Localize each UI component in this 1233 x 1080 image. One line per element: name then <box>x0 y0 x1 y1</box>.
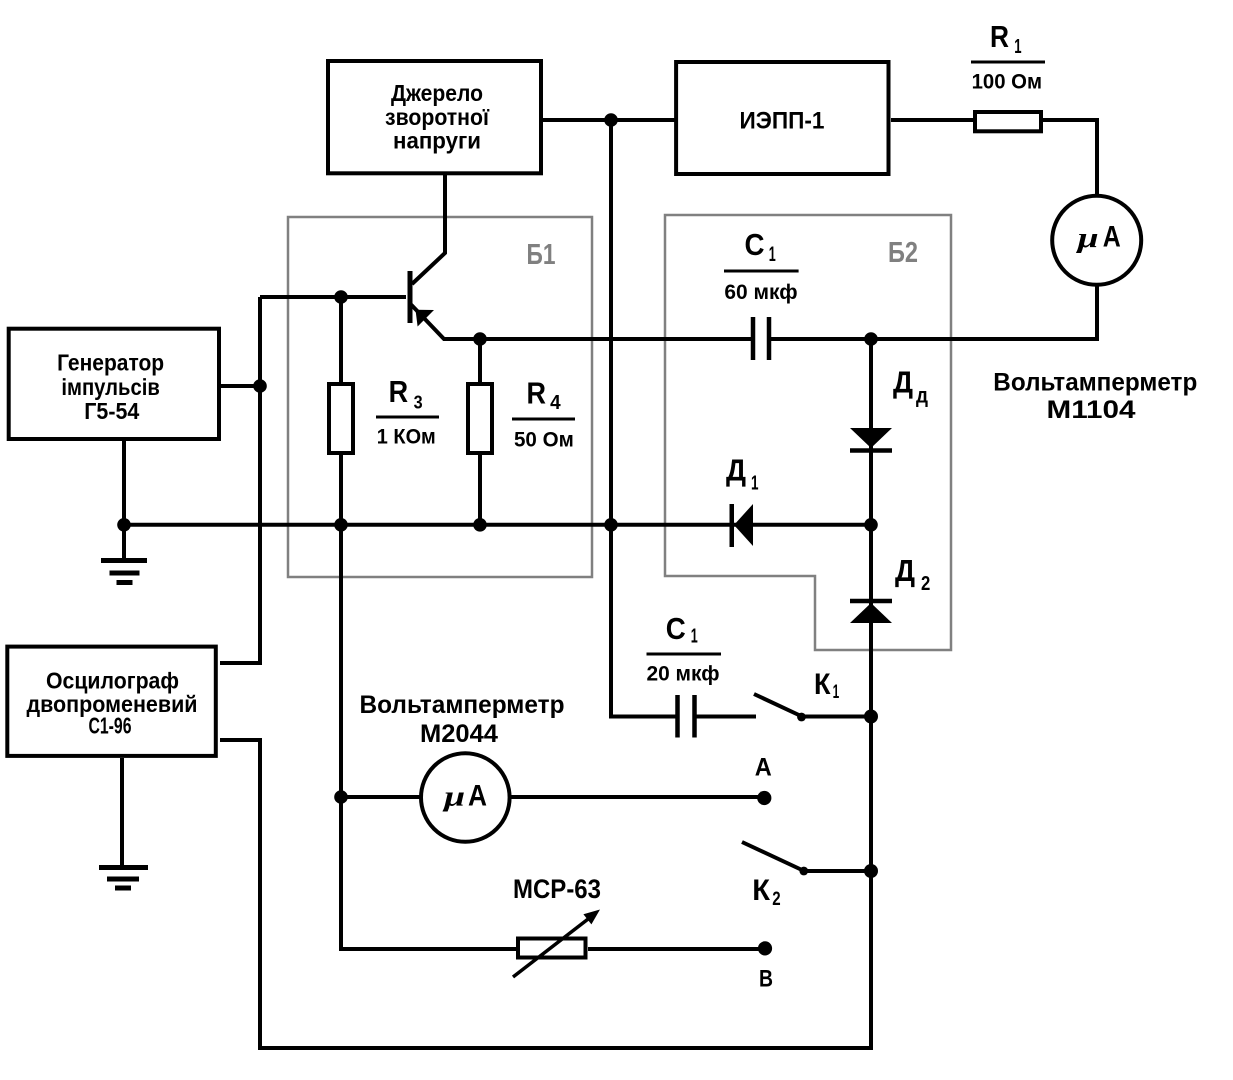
svg-text:зворотної: зворотної <box>385 104 489 130</box>
svg-text:Вольтамперметр: Вольтамперметр <box>993 369 1197 397</box>
svg-text:Осцилограф: Осцилограф <box>46 668 179 694</box>
svg-text:60 мкф: 60 мкф <box>724 280 797 304</box>
svg-text:20 мкф: 20 мкф <box>647 662 720 686</box>
svg-text:Г5-54: Г5-54 <box>84 398 139 424</box>
svg-text:Вольтамперметр: Вольтамперметр <box>360 691 565 719</box>
svg-text:д: д <box>916 384 928 407</box>
svg-text:Джерело: Джерело <box>391 80 483 106</box>
svg-text:100 Ом: 100 Ом <box>972 70 1042 94</box>
svg-text:4: 4 <box>550 392 561 414</box>
svg-text:3: 3 <box>414 391 423 412</box>
svg-text:1: 1 <box>769 243 776 266</box>
svg-text:50 Ом: 50 Ом <box>514 428 574 452</box>
svg-text:М1104: М1104 <box>1047 396 1136 424</box>
svg-text:М2044: М2044 <box>420 720 498 748</box>
svg-text:μ: μ <box>442 781 466 813</box>
svg-text:A: A <box>755 754 772 782</box>
svg-text:К: К <box>814 668 831 701</box>
svg-text:C: C <box>745 227 765 262</box>
svg-text:МСР-63: МСР-63 <box>513 874 601 904</box>
svg-text:С1-96: С1-96 <box>89 713 132 739</box>
svg-text:Генератор: Генератор <box>57 350 164 376</box>
svg-text:C: C <box>666 611 686 646</box>
svg-text:Д: Д <box>895 553 915 588</box>
svg-text:А: А <box>1103 221 1121 254</box>
svg-text:1: 1 <box>751 471 759 494</box>
svg-text:1: 1 <box>1014 36 1021 58</box>
svg-text:Б1: Б1 <box>527 239 556 271</box>
svg-text:Д: Д <box>726 452 746 487</box>
svg-text:В: В <box>759 966 773 993</box>
svg-text:1 КОм: 1 КОм <box>377 424 436 448</box>
svg-text:К: К <box>752 874 770 907</box>
svg-text:2: 2 <box>772 889 780 910</box>
svg-text:R: R <box>527 376 547 411</box>
svg-text:1: 1 <box>833 682 840 703</box>
svg-text:Д: Д <box>893 365 913 400</box>
svg-text:μ: μ <box>1075 222 1099 254</box>
svg-text:R: R <box>990 19 1009 54</box>
svg-text:напруги: напруги <box>393 128 481 154</box>
svg-text:2: 2 <box>921 573 930 595</box>
svg-text:1: 1 <box>691 626 698 648</box>
svg-text:А: А <box>468 780 487 813</box>
svg-text:R: R <box>389 374 409 409</box>
svg-text:імпульсів: імпульсів <box>61 374 160 400</box>
svg-text:ИЭПП-1: ИЭПП-1 <box>740 108 825 135</box>
svg-text:Б2: Б2 <box>888 237 918 269</box>
